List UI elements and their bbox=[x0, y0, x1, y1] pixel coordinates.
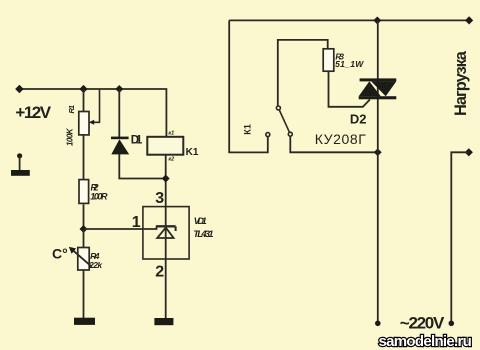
ground right bbox=[154, 318, 173, 325]
wire R4 to ground bbox=[83, 270, 85, 318]
wire 220V top bus bbox=[229, 19, 469, 21]
svg-text:samodelnie.ru: samodelnie.ru bbox=[379, 333, 472, 350]
svg-text:~220V: ~220V bbox=[400, 314, 445, 333]
svg-text:C°: C° bbox=[52, 245, 68, 261]
node R1 top junction bbox=[79, 85, 87, 93]
resistor R2 bbox=[79, 180, 89, 204]
svg-text:TL431: TL431 bbox=[193, 229, 213, 240]
node divider junction bbox=[80, 225, 88, 233]
node triac bottom terminal bbox=[375, 321, 381, 327]
svg-text:2: 2 bbox=[155, 263, 164, 280]
shunt reference VD1 symbol bbox=[156, 226, 176, 238]
node +12V terminal bbox=[15, 85, 23, 93]
wire R3 to gate bbox=[329, 71, 370, 107]
node D1 relay junction bbox=[162, 175, 170, 183]
relay coil K1 bbox=[147, 137, 183, 155]
svg-text:K1: K1 bbox=[186, 147, 199, 158]
wire switch pivot branch bbox=[278, 40, 328, 106]
wire relay to TL431 to ground bbox=[165, 155, 167, 318]
node gate junction bbox=[374, 148, 382, 156]
svg-text:VD1: VD1 bbox=[194, 216, 207, 226]
svg-text:R1: R1 bbox=[67, 105, 76, 114]
svg-text:51_1W: 51_1W bbox=[335, 59, 364, 69]
node triac top junction bbox=[373, 16, 381, 24]
node load top terminal bbox=[465, 16, 473, 24]
svg-text:100K: 100K bbox=[65, 127, 74, 146]
svg-text:3: 3 bbox=[155, 190, 164, 207]
svg-text:1: 1 bbox=[132, 214, 141, 231]
svg-text:+12V: +12V bbox=[15, 103, 51, 122]
wire switch to gate node bbox=[290, 136, 377, 152]
wire D1 top lead bbox=[118, 89, 120, 137]
op-amp U1 box TL431 bbox=[143, 207, 189, 259]
wire load to 220V bbox=[451, 152, 469, 323]
svg-text:К1: К1 bbox=[243, 124, 253, 135]
svg-text:22k: 22k bbox=[88, 260, 103, 270]
ground left bbox=[74, 318, 95, 325]
wire +12V bus bbox=[19, 89, 166, 137]
node D1 top junction bbox=[115, 85, 123, 93]
relay contact K1 switch bbox=[266, 106, 293, 137]
svg-text:КУ208Г: КУ208Г bbox=[315, 131, 366, 147]
wire node to R4 bbox=[83, 229, 85, 248]
wire R1 top lead bbox=[83, 89, 85, 111]
wire pin1 to TL431 bbox=[84, 226, 157, 229]
triac D2 bbox=[359, 78, 397, 99]
svg-text:Нагрузка: Нагрузка bbox=[452, 50, 470, 116]
wire R2 to node bbox=[83, 204, 85, 229]
wire D1 to node bbox=[119, 154, 165, 179]
wire switch left branch bbox=[229, 20, 268, 152]
node 220V right terminal bbox=[449, 321, 455, 327]
svg-text:D1: D1 bbox=[131, 135, 143, 147]
potentiometer R1 bbox=[79, 89, 100, 135]
node load bottom terminal bbox=[465, 148, 473, 156]
wire R1 to R2 bbox=[83, 135, 85, 180]
wire triac main vertical bbox=[377, 20, 379, 323]
resistor R3 bbox=[323, 49, 334, 71]
thermistor R4 bbox=[69, 247, 92, 270]
svg-text:100R: 100R bbox=[90, 191, 108, 201]
svg-text:к1: к1 bbox=[168, 130, 174, 136]
ground 12V supply terminal bbox=[11, 153, 30, 176]
svg-text:D2: D2 bbox=[350, 112, 367, 127]
svg-text:к2: к2 bbox=[168, 157, 174, 163]
diode D1 bbox=[111, 137, 129, 155]
